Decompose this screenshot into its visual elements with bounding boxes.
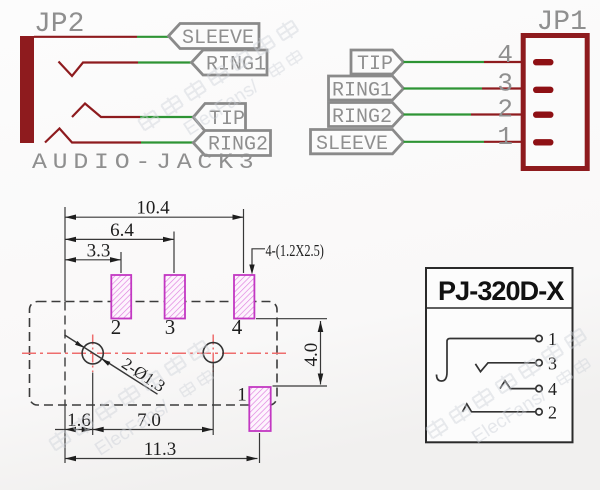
svg-text:3.3: 3.3 bbox=[87, 241, 111, 262]
svg-text:4.0: 4.0 bbox=[301, 343, 322, 367]
svg-text:SLEEVE: SLEEVE bbox=[182, 27, 254, 50]
svg-text:10.4: 10.4 bbox=[136, 198, 170, 219]
svg-text:PJ-320D-X: PJ-320D-X bbox=[438, 276, 564, 306]
svg-text:JP2: JP2 bbox=[34, 9, 84, 40]
svg-text:4: 4 bbox=[497, 40, 513, 70]
svg-text:4-(1.2X2.5): 4-(1.2X2.5) bbox=[266, 242, 325, 260]
svg-text:11.3: 11.3 bbox=[144, 439, 177, 460]
svg-text:AUDIO-JACK3: AUDIO-JACK3 bbox=[32, 150, 259, 175]
svg-text:4: 4 bbox=[548, 379, 557, 399]
svg-text:TIP: TIP bbox=[357, 53, 393, 76]
svg-text:SLEEVE: SLEEVE bbox=[316, 133, 388, 156]
svg-text:2: 2 bbox=[111, 315, 122, 339]
svg-text:1: 1 bbox=[237, 385, 247, 406]
svg-text:4: 4 bbox=[232, 315, 243, 339]
svg-text:2: 2 bbox=[548, 403, 557, 423]
svg-text:RING1: RING1 bbox=[332, 80, 392, 103]
svg-text:1: 1 bbox=[497, 122, 513, 152]
svg-text:3: 3 bbox=[165, 315, 176, 339]
svg-text:RING2: RING2 bbox=[332, 106, 392, 129]
svg-text:6.4: 6.4 bbox=[110, 220, 134, 241]
svg-text:2: 2 bbox=[497, 95, 513, 125]
